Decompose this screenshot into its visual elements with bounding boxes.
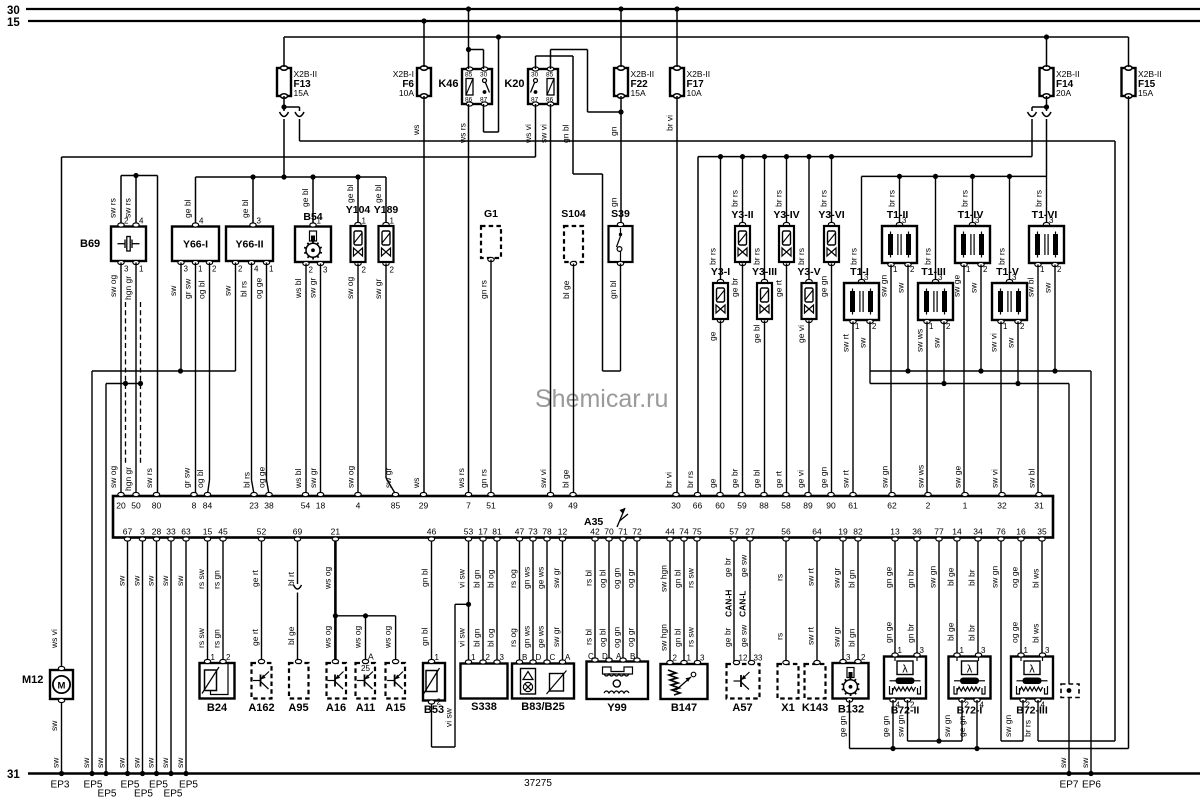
svg-text:14: 14 <box>952 527 962 537</box>
svg-text:sw rs: sw rs <box>123 198 133 218</box>
svg-text:sw: sw <box>1080 757 1090 768</box>
svg-text:2: 2 <box>926 501 931 511</box>
svg-text:T1-VI: T1-VI <box>1032 209 1058 221</box>
svg-text:X2B-II: X2B-II <box>687 69 711 79</box>
svg-text:ge gn: ge gn <box>819 466 829 488</box>
svg-text:87: 87 <box>480 97 488 104</box>
svg-text:32: 32 <box>997 501 1007 511</box>
svg-text:gn bl: gn bl <box>420 568 430 587</box>
svg-text:M12: M12 <box>22 674 43 686</box>
svg-text:88: 88 <box>759 501 769 511</box>
svg-text:23: 23 <box>249 501 259 511</box>
svg-text:sw: sw <box>81 757 91 768</box>
svg-text:2: 2 <box>362 266 367 275</box>
svg-text:ge bl: ge bl <box>183 199 193 218</box>
svg-text:EP3: EP3 <box>51 780 70 791</box>
svg-text:og bl: og bl <box>197 280 207 299</box>
svg-text:rs bl: rs bl <box>584 570 594 586</box>
svg-text:sw: sw <box>146 757 156 768</box>
svg-text:1: 1 <box>898 646 903 655</box>
svg-text:ws: ws <box>411 478 421 489</box>
svg-text:B72-II: B72-II <box>891 705 920 717</box>
svg-text:B: B <box>522 653 527 662</box>
svg-text:sw gn: sw gn <box>942 715 952 737</box>
svg-text:74: 74 <box>679 527 689 537</box>
svg-text:36: 36 <box>912 527 922 537</box>
svg-text:sw ws: sw ws <box>915 329 925 352</box>
svg-text:84: 84 <box>203 501 213 511</box>
svg-text:sw hgn: sw hgn <box>659 624 669 651</box>
svg-text:3: 3 <box>700 654 705 663</box>
svg-text:15: 15 <box>203 527 213 537</box>
svg-text:sw bl: sw bl <box>1026 278 1036 297</box>
svg-text:λ: λ <box>902 664 908 676</box>
svg-text:sw: sw <box>95 757 105 768</box>
svg-text:ge br: ge br <box>723 557 733 577</box>
svg-text:3: 3 <box>140 527 145 537</box>
svg-text:br rs: br rs <box>685 471 695 488</box>
svg-text:og bl: og bl <box>598 628 608 647</box>
svg-text:Y3-I: Y3-I <box>711 266 730 278</box>
svg-text:67: 67 <box>123 527 133 537</box>
svg-text:A15: A15 <box>385 702 405 714</box>
svg-text:og ge: og ge <box>254 277 264 299</box>
svg-text:53: 53 <box>464 527 474 537</box>
svg-text:sw gr: sw gr <box>832 627 842 647</box>
svg-text:31: 31 <box>7 769 20 781</box>
svg-text:sw: sw <box>132 757 142 768</box>
svg-text:S338: S338 <box>471 701 497 713</box>
svg-text:rs og: rs og <box>508 628 518 647</box>
svg-text:sw: sw <box>51 757 61 768</box>
svg-text:44: 44 <box>665 527 675 537</box>
svg-text:60: 60 <box>715 501 725 511</box>
svg-text:og ge: og ge <box>257 466 267 488</box>
svg-text:69: 69 <box>293 527 303 537</box>
svg-text:sw bl: sw bl <box>1027 469 1037 488</box>
svg-text:ge bl: ge bl <box>752 469 762 488</box>
svg-text:31: 31 <box>1034 501 1044 511</box>
svg-text:br rs: br rs <box>887 190 897 207</box>
svg-text:ge ws: ge ws <box>536 626 546 648</box>
svg-text:B132: B132 <box>838 704 864 716</box>
svg-text:1: 1 <box>198 265 203 274</box>
svg-text:33: 33 <box>754 654 763 663</box>
svg-text:15: 15 <box>7 17 20 29</box>
svg-text:ge br: ge br <box>723 627 733 647</box>
svg-text:ge gn: ge gn <box>838 715 848 737</box>
svg-text:sw: sw <box>1058 757 1068 768</box>
svg-text:S104: S104 <box>561 208 586 220</box>
svg-text:bl gn: bl gn <box>847 569 857 588</box>
svg-text:A: A <box>368 652 374 662</box>
svg-text:73: 73 <box>528 527 538 537</box>
svg-text:1: 1 <box>471 653 476 662</box>
svg-text:D: D <box>536 653 542 662</box>
svg-text:bl og: bl og <box>486 628 496 647</box>
svg-text:gn ws: gn ws <box>522 626 532 648</box>
svg-text:sw ge: sw ge <box>953 466 963 488</box>
svg-text:rs sw: rs sw <box>196 568 206 589</box>
svg-text:50: 50 <box>131 501 141 511</box>
svg-text:br vi: br vi <box>664 472 674 488</box>
svg-text:B53: B53 <box>424 704 444 716</box>
svg-text:61: 61 <box>848 501 858 511</box>
svg-text:1: 1 <box>960 646 965 655</box>
svg-text:B83/B25: B83/B25 <box>521 701 564 713</box>
svg-text:ge bl: ge bl <box>300 188 310 207</box>
svg-text:sw gr: sw gr <box>551 627 561 647</box>
svg-text:29: 29 <box>419 501 429 511</box>
svg-text:17: 17 <box>478 527 488 537</box>
svg-text:4: 4 <box>199 217 204 226</box>
svg-text:gr sw: gr sw <box>183 278 193 299</box>
svg-text:sw gn: sw gn <box>1003 715 1013 737</box>
svg-text:bl rs: bl rs <box>242 472 252 488</box>
svg-text:ws og: ws og <box>353 626 363 649</box>
svg-text:rs og: rs og <box>508 569 518 588</box>
svg-text:sw gn: sw gn <box>879 275 889 297</box>
svg-text:10A: 10A <box>399 88 414 98</box>
svg-text:Y99: Y99 <box>607 702 627 714</box>
svg-text:45: 45 <box>218 527 228 537</box>
svg-text:1: 1 <box>963 501 968 511</box>
svg-text:bl ws: bl ws <box>1031 624 1041 643</box>
svg-text:ge br: ge br <box>730 468 740 488</box>
svg-text:Y3-IV: Y3-IV <box>773 209 799 221</box>
svg-text:Y104: Y104 <box>346 204 371 216</box>
svg-text:sw gn: sw gn <box>990 566 1000 588</box>
svg-text:2: 2 <box>212 265 217 274</box>
svg-text:sw ge: sw ge <box>952 275 962 297</box>
svg-text:sw rs: sw rs <box>108 198 118 218</box>
svg-text:15A: 15A <box>631 88 646 98</box>
svg-text:sw gn: sw gn <box>896 715 906 737</box>
svg-text:2: 2 <box>910 265 915 274</box>
svg-text:sw rt: sw rt <box>841 469 851 488</box>
svg-text:ws bl: ws bl <box>293 469 303 489</box>
svg-text:75: 75 <box>692 527 702 537</box>
svg-text:21: 21 <box>331 527 341 537</box>
svg-text:18: 18 <box>316 501 326 511</box>
svg-text:10A: 10A <box>687 88 702 98</box>
svg-text:ge rt: ge rt <box>774 470 784 488</box>
svg-text:br rs: br rs <box>960 190 970 207</box>
svg-text:br rs: br rs <box>923 248 933 265</box>
svg-text:gn bl: gn bl <box>673 628 683 647</box>
svg-text:bl ge: bl ge <box>946 567 956 586</box>
svg-text:og ge: og ge <box>1010 566 1020 588</box>
svg-text:og bl: og bl <box>195 469 205 488</box>
svg-text:rs sw: rs sw <box>686 567 696 588</box>
svg-text:CAN-H: CAN-H <box>724 590 734 617</box>
svg-text:15A: 15A <box>1138 88 1153 98</box>
svg-text:sw: sw <box>49 720 59 731</box>
svg-text:85: 85 <box>465 72 473 79</box>
svg-text:ws og: ws og <box>323 567 333 590</box>
svg-text:87: 87 <box>531 97 539 104</box>
svg-text:35: 35 <box>1037 527 1047 537</box>
svg-text:bl ge: bl ge <box>561 280 571 299</box>
svg-text:sw: sw <box>160 757 170 768</box>
svg-text:1: 1 <box>211 653 216 662</box>
svg-text:20: 20 <box>116 501 126 511</box>
svg-text:sw vi: sw vi <box>990 469 1000 488</box>
svg-text:T1-III: T1-III <box>921 266 946 278</box>
svg-text:56: 56 <box>781 527 791 537</box>
svg-text:2: 2 <box>1057 265 1062 274</box>
svg-text:br rs: br rs <box>1023 720 1033 737</box>
svg-text:br rs: br rs <box>849 248 859 265</box>
svg-text:2: 2 <box>872 322 877 331</box>
svg-text:br rs: br rs <box>997 248 1007 265</box>
svg-text:ge gn: ge gn <box>819 275 829 297</box>
svg-text:D: D <box>602 652 608 661</box>
svg-text:B72-I: B72-I <box>957 705 983 717</box>
svg-text:ws og: ws og <box>323 626 333 649</box>
svg-text:4: 4 <box>356 501 361 511</box>
svg-text:og bl: og bl <box>598 569 608 588</box>
svg-text:EP5: EP5 <box>164 789 183 800</box>
svg-text:ge rt: ge rt <box>774 279 784 297</box>
svg-text:br rs: br rs <box>752 248 762 265</box>
svg-text:sw: sw <box>168 285 178 296</box>
svg-text:20A: 20A <box>1056 88 1071 98</box>
svg-text:A11: A11 <box>356 702 376 714</box>
svg-text:ge sw: ge sw <box>739 624 749 647</box>
svg-text:hgn gr: hgn gr <box>123 276 133 300</box>
svg-text:K143: K143 <box>802 702 828 714</box>
svg-text:66: 66 <box>693 501 703 511</box>
svg-text:T1-II: T1-II <box>887 209 909 221</box>
svg-text:ws og: ws og <box>383 626 393 649</box>
svg-text:1: 1 <box>1024 646 1029 655</box>
svg-text:br vi: br vi <box>665 115 675 131</box>
svg-text:2: 2 <box>226 653 231 662</box>
svg-text:gn ws: gn ws <box>522 567 532 589</box>
svg-text:sw vi: sw vi <box>539 124 549 143</box>
svg-text:1: 1 <box>966 265 971 274</box>
svg-text:85: 85 <box>391 501 401 511</box>
svg-text:br rs: br rs <box>796 248 806 265</box>
svg-text:Y3-III: Y3-III <box>752 266 777 278</box>
svg-text:15A: 15A <box>294 88 309 98</box>
svg-text:1: 1 <box>929 322 934 331</box>
svg-text:sw: sw <box>117 757 127 768</box>
svg-text:B: B <box>630 652 635 661</box>
svg-text:62: 62 <box>887 501 897 511</box>
svg-text:59: 59 <box>737 501 747 511</box>
svg-text:sw: sw <box>896 282 906 293</box>
svg-text:rs: rs <box>775 633 785 640</box>
svg-text:2: 2 <box>673 654 678 663</box>
svg-text:og gn: og gn <box>612 626 622 648</box>
svg-text:gn rs: gn rs <box>479 469 489 488</box>
svg-text:Y3-II: Y3-II <box>731 209 753 221</box>
svg-text:K20: K20 <box>504 78 524 90</box>
svg-text:1: 1 <box>269 265 274 274</box>
svg-text:sw: sw <box>160 575 170 586</box>
svg-text:sw: sw <box>1043 282 1053 293</box>
svg-text:sw rt: sw rt <box>806 626 816 645</box>
svg-text:EP7: EP7 <box>1060 780 1079 791</box>
svg-text:og ge: og ge <box>1010 621 1020 643</box>
svg-text:51: 51 <box>486 501 496 511</box>
svg-text:rs: rs <box>775 574 785 581</box>
svg-text:76: 76 <box>996 527 1006 537</box>
svg-text:ws rs: ws rs <box>458 123 468 144</box>
svg-text:bl br: bl br <box>967 624 977 641</box>
svg-text:86: 86 <box>465 97 473 104</box>
svg-text:ge vi: ge vi <box>796 325 806 343</box>
svg-text:ge rt: ge rt <box>250 628 260 646</box>
svg-text:br rs: br rs <box>708 248 718 265</box>
svg-text:gn ge: gn ge <box>884 621 894 643</box>
svg-text:Y66-I: Y66-I <box>183 239 208 251</box>
svg-text:ge ws: ge ws <box>536 567 546 589</box>
svg-text:1: 1 <box>317 217 322 226</box>
svg-text:M: M <box>58 681 66 692</box>
svg-text:54: 54 <box>301 501 311 511</box>
svg-text:br rs: br rs <box>730 190 740 207</box>
svg-text:T1-V: T1-V <box>996 266 1019 278</box>
svg-text:16: 16 <box>1016 527 1026 537</box>
svg-text:sw og: sw og <box>345 277 355 299</box>
svg-text:hgn gr: hgn gr <box>123 467 133 491</box>
svg-text:25: 25 <box>361 664 370 673</box>
svg-text:4: 4 <box>139 217 144 226</box>
svg-text:bl ws: bl ws <box>1031 569 1041 588</box>
svg-text:63: 63 <box>181 527 191 537</box>
svg-text:sw ws: sw ws <box>916 465 926 488</box>
svg-text:λ: λ <box>1029 664 1035 676</box>
svg-text:2: 2 <box>1020 322 1025 331</box>
svg-text:ge rt: ge rt <box>250 569 260 587</box>
svg-text:1: 1 <box>390 217 395 226</box>
svg-text:B72-III: B72-III <box>1016 705 1048 717</box>
svg-text:bl rt: bl rt <box>286 571 296 586</box>
svg-text:72: 72 <box>632 527 642 537</box>
svg-text:ws bl: ws bl <box>293 279 303 299</box>
svg-text:EP5: EP5 <box>98 789 117 800</box>
svg-text:1: 1 <box>139 265 144 274</box>
svg-text:3: 3 <box>184 265 189 274</box>
svg-text:89: 89 <box>803 501 813 511</box>
svg-text:vi sw: vi sw <box>444 707 454 727</box>
svg-text:Y189: Y189 <box>374 204 399 216</box>
svg-text:sw og: sw og <box>108 275 118 297</box>
svg-text:ge: ge <box>708 478 718 488</box>
svg-text:8: 8 <box>192 501 197 511</box>
svg-text:bl og: bl og <box>486 569 496 588</box>
svg-text:3: 3 <box>920 646 925 655</box>
svg-text:sw gr: sw gr <box>308 278 318 298</box>
svg-text:A: A <box>616 652 622 661</box>
svg-text:X2B-II: X2B-II <box>294 69 318 79</box>
svg-text:gn bl: gn bl <box>420 627 430 646</box>
svg-text:gn bl: gn bl <box>608 280 618 299</box>
svg-text:X2B-II: X2B-II <box>1056 69 1080 79</box>
svg-text:gn br: gn br <box>906 623 916 643</box>
svg-text:2: 2 <box>390 266 395 275</box>
svg-text:A95: A95 <box>288 702 308 714</box>
svg-text:81: 81 <box>492 527 502 537</box>
svg-text:ws: ws <box>411 125 421 136</box>
svg-text:3: 3 <box>257 217 262 226</box>
svg-text:2: 2 <box>238 265 243 274</box>
svg-text:A: A <box>565 653 571 662</box>
svg-text:Y66-II: Y66-II <box>235 239 263 251</box>
svg-text:K46: K46 <box>438 78 458 90</box>
svg-text:30: 30 <box>7 5 20 17</box>
svg-text:Shemicar.ru: Shemicar.ru <box>535 385 668 413</box>
svg-text:sw: sw <box>932 337 942 348</box>
svg-text:X1: X1 <box>781 702 794 714</box>
svg-text:sw: sw <box>223 285 233 296</box>
svg-text:sw: sw <box>132 575 142 586</box>
svg-text:bl rs: bl rs <box>239 281 249 297</box>
svg-text:S39: S39 <box>611 208 630 220</box>
svg-text:X2B-I: X2B-I <box>393 69 414 79</box>
svg-text:52: 52 <box>257 527 267 537</box>
svg-text:EP6: EP6 <box>1082 780 1101 791</box>
svg-text:B69: B69 <box>80 238 100 250</box>
svg-text:gr sw: gr sw <box>182 467 192 488</box>
svg-text:bl ge: bl ge <box>561 469 571 488</box>
svg-text:13: 13 <box>890 527 900 537</box>
svg-text:rs sw: rs sw <box>686 626 696 647</box>
svg-text:gn rs: gn rs <box>479 280 489 299</box>
svg-text:42: 42 <box>590 527 600 537</box>
svg-text:71: 71 <box>618 527 628 537</box>
svg-text:64: 64 <box>812 527 822 537</box>
svg-text:1: 1 <box>1003 322 1008 331</box>
svg-text:2: 2 <box>983 265 988 274</box>
svg-text:58: 58 <box>781 501 791 511</box>
svg-text:ws vi: ws vi <box>49 629 59 649</box>
svg-text:7: 7 <box>466 501 471 511</box>
svg-text:bl br: bl br <box>967 569 977 586</box>
svg-text:19: 19 <box>838 527 848 537</box>
svg-text:A57: A57 <box>732 702 752 714</box>
svg-text:sw: sw <box>175 575 185 586</box>
svg-text:1: 1 <box>362 217 367 226</box>
svg-text:1: 1 <box>687 654 692 663</box>
svg-text:1: 1 <box>855 322 860 331</box>
svg-text:CAN-L: CAN-L <box>738 591 748 617</box>
svg-text:ge bl: ge bl <box>345 184 355 203</box>
svg-text:sw gr: sw gr <box>383 468 393 488</box>
svg-text:28: 28 <box>152 527 162 537</box>
svg-text:B24: B24 <box>207 702 228 714</box>
svg-text:1: 1 <box>893 265 898 274</box>
svg-text:br rs: br rs <box>1034 190 1044 207</box>
svg-text:ge bl: ge bl <box>752 324 762 343</box>
svg-text:T1-IV: T1-IV <box>958 209 984 221</box>
svg-text:gn: gn <box>609 197 619 207</box>
svg-text:3: 3 <box>846 653 851 662</box>
svg-text:90: 90 <box>826 501 836 511</box>
svg-text:C: C <box>550 653 556 662</box>
svg-text:9: 9 <box>548 501 553 511</box>
svg-text:1: 1 <box>1040 265 1045 274</box>
svg-text:ws vi: ws vi <box>523 124 533 144</box>
svg-text:3: 3 <box>981 646 986 655</box>
svg-text:2: 2 <box>309 266 314 275</box>
svg-text:3: 3 <box>1045 646 1050 655</box>
svg-text:sw hgn: sw hgn <box>659 565 669 592</box>
svg-text:sw gr: sw gr <box>551 568 561 588</box>
